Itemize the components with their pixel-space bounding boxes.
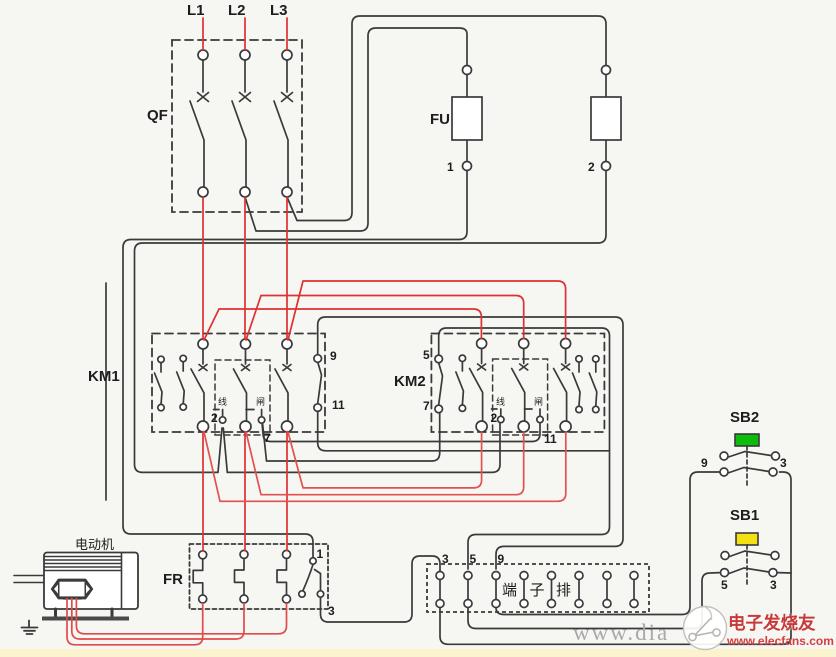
- svg-text:1: 1: [317, 547, 324, 561]
- svg-text:端: 端: [502, 582, 517, 599]
- svg-text:5: 5: [470, 552, 477, 566]
- svg-text:7: 7: [264, 431, 271, 445]
- svg-text:11: 11: [544, 432, 557, 446]
- svg-text:FU: FU: [430, 111, 450, 128]
- svg-text:5: 5: [721, 578, 728, 592]
- svg-text:3: 3: [442, 552, 449, 566]
- svg-text:9: 9: [498, 552, 505, 566]
- svg-text:电子发烧友: 电子发烧友: [728, 613, 816, 633]
- svg-text:www.dia: www.dia: [573, 620, 669, 645]
- svg-text:11: 11: [332, 398, 345, 412]
- svg-text:电动机: 电动机: [75, 537, 114, 552]
- svg-text:2: 2: [491, 411, 498, 425]
- svg-text:3: 3: [328, 604, 335, 618]
- svg-text:KM1: KM1: [88, 368, 120, 385]
- svg-text:2: 2: [588, 160, 595, 174]
- svg-text:2: 2: [211, 411, 218, 425]
- svg-text:www.elecfans.com: www.elecfans.com: [726, 634, 834, 648]
- svg-text:子: 子: [530, 582, 545, 599]
- svg-text:KM2: KM2: [394, 373, 426, 390]
- svg-text:L1: L1: [187, 2, 205, 19]
- svg-text:SB2: SB2: [730, 409, 759, 426]
- svg-text:1: 1: [447, 160, 454, 174]
- svg-text:QF: QF: [147, 107, 168, 124]
- svg-text:7: 7: [423, 399, 430, 413]
- svg-text:线: 线: [496, 396, 505, 407]
- svg-text:3: 3: [780, 456, 787, 470]
- svg-text:闸: 闸: [534, 397, 543, 407]
- svg-text:3: 3: [770, 578, 777, 592]
- svg-text:FR: FR: [163, 571, 183, 588]
- svg-text:排: 排: [556, 582, 571, 599]
- svg-text:9: 9: [330, 349, 337, 363]
- svg-text:L2: L2: [228, 2, 246, 19]
- svg-text:5: 5: [423, 348, 430, 362]
- svg-text:SB1: SB1: [730, 507, 759, 524]
- svg-text:L3: L3: [270, 2, 288, 19]
- svg-text:线: 线: [218, 396, 227, 407]
- svg-text:闸: 闸: [256, 397, 265, 407]
- svg-text:9: 9: [701, 456, 708, 470]
